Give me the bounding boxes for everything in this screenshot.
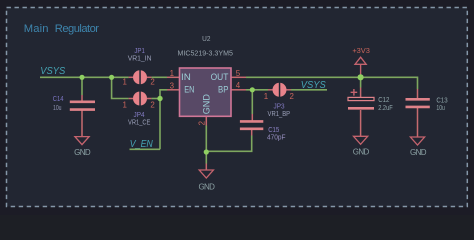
svg-text:EN: EN	[184, 84, 194, 95]
svg-text:2: 2	[150, 100, 154, 109]
svg-text:1: 1	[264, 92, 268, 101]
svg-text:1: 1	[123, 100, 127, 109]
svg-text:470pF: 470pF	[267, 132, 286, 141]
svg-text:10u: 10u	[436, 103, 445, 112]
svg-text:GND: GND	[410, 148, 427, 157]
svg-text:GND: GND	[198, 183, 215, 192]
svg-text:OUT: OUT	[211, 72, 229, 83]
svg-text:VR1_CE: VR1_CE	[128, 118, 151, 127]
svg-text:V_EN: V_EN	[130, 138, 153, 150]
svg-text:2: 2	[290, 92, 294, 101]
svg-text:BP: BP	[218, 84, 228, 95]
svg-text:GND: GND	[353, 147, 370, 156]
svg-text:Main: Main	[24, 23, 49, 35]
svg-text:Regulator: Regulator	[55, 23, 99, 35]
svg-text:IN: IN	[181, 72, 191, 83]
svg-text:VSYS: VSYS	[301, 79, 326, 91]
svg-text:3: 3	[170, 81, 175, 90]
svg-text:GND: GND	[74, 148, 91, 157]
svg-text:1: 1	[170, 69, 174, 78]
svg-text:GND: GND	[202, 94, 212, 115]
svg-text:VSYS: VSYS	[40, 65, 65, 77]
svg-text:VR1_BP: VR1_BP	[268, 109, 291, 118]
svg-text:U2: U2	[202, 34, 210, 43]
svg-text:+3V3: +3V3	[352, 46, 370, 55]
svg-text:5: 5	[236, 69, 241, 78]
svg-text:1: 1	[123, 77, 127, 86]
svg-text:2.2uF: 2.2uF	[378, 103, 393, 112]
svg-text:2: 2	[150, 77, 154, 86]
svg-text:2: 2	[198, 121, 207, 125]
svg-text:10u: 10u	[53, 103, 62, 112]
svg-text:MIC5219-3.3YM5: MIC5219-3.3YM5	[178, 48, 233, 57]
svg-text:VR1_IN: VR1_IN	[128, 53, 152, 62]
svg-text:4: 4	[236, 81, 241, 90]
